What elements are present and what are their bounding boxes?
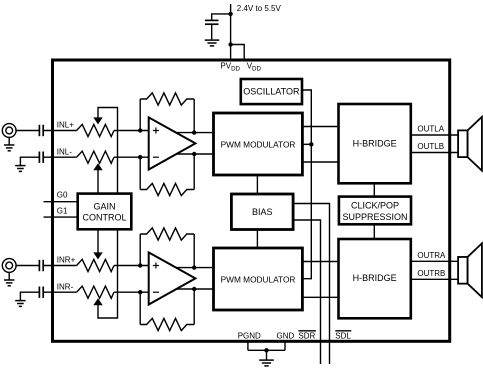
junction dot INR+ fb tap — [138, 263, 142, 267]
junction dot out+ fb tap 1 — [192, 130, 196, 134]
wire oscillator distribution — [302, 90, 311, 279]
wire INR+ to amp — [114, 265, 150, 267]
wire feedback left vert INR top — [139, 234, 141, 266]
svg-text:G1: G1 — [57, 207, 68, 216]
ground INR- reference — [15, 301, 25, 307]
PWM MODULATOR 1 block — [214, 113, 303, 175]
wire PWM2 outB — [302, 296, 338, 298]
resistor Rf_INL top (feedback) — [140, 93, 194, 105]
svg-text:VDD: VDD — [247, 62, 262, 73]
svg-text:INL-: INL- — [57, 148, 72, 157]
wire PVDD supply drop — [230, 4, 232, 60]
input jack connector J_INL — [2, 124, 16, 138]
wire feedback right vert INR bottom — [193, 289, 195, 325]
resistor R_INR+ (variable) — [77, 259, 114, 271]
svg-text:PWM MODULATOR: PWM MODULATOR — [221, 139, 296, 149]
svg-text:H-BRIDGE: H-BRIDGE — [353, 139, 397, 149]
wire INL- tap line — [97, 170, 99, 194]
wire amp out- to PWM 2 — [170, 288, 214, 290]
wire OUTLA — [411, 134, 458, 136]
wire BIAS to SDL pin — [293, 204, 329, 365]
capacitor C_INL+ — [39, 125, 43, 136]
wire PGND stub — [247, 341, 249, 350]
svg-text:OUTLA: OUTLA — [417, 125, 444, 134]
svg-text:PWM MODULATOR: PWM MODULATOR — [221, 274, 296, 284]
PWM MODULATOR 2 block — [214, 248, 303, 310]
wire feedback left vert INR bottom — [139, 292, 141, 324]
junction dot osc/PWM1 — [309, 142, 313, 146]
svg-text:PVDD: PVDD — [220, 62, 240, 73]
capacitor bypass (supply) — [205, 20, 219, 24]
ground system — [259, 360, 274, 366]
wire PWM1 to BIAS — [256, 175, 258, 194]
svg-text:INL+: INL+ — [57, 120, 74, 129]
speaker left — [458, 117, 482, 171]
wire INL+ jack to cap — [15, 130, 38, 132]
ground under jack INL — [4, 145, 14, 151]
wire INR- ground to cap — [20, 292, 38, 300]
wire INR+ into box — [44, 265, 77, 267]
wire G0 stub — [44, 201, 78, 203]
GAIN CONTROL block — [78, 194, 132, 230]
wire jack INL ground stub — [8, 137, 10, 145]
wire HB1 to click/pop — [373, 183, 375, 196]
svg-text:OUTRA: OUTRA — [417, 251, 446, 260]
svg-text:CONTROL: CONTROL — [82, 212, 126, 222]
wire PWM1 outB — [302, 161, 338, 163]
wire feedback left vert INL top — [139, 99, 141, 131]
wire jack INR ground stub — [8, 272, 10, 280]
svg-text:INR+: INR+ — [57, 255, 76, 264]
junction dot INR- fb tap — [138, 290, 142, 294]
wire OUTRB — [411, 278, 458, 280]
svg-text:CLICK/POP: CLICK/POP — [351, 200, 399, 210]
wire INL- to amp — [114, 156, 150, 158]
H-BRIDGE 2 block — [339, 239, 411, 318]
wire amp out+ to PWM 2 — [170, 267, 214, 269]
wire OUTRA — [411, 260, 458, 262]
junction dot INL- fb tap — [138, 155, 142, 159]
wire BIAS to SDR pin — [293, 220, 320, 364]
svg-text:OUTRB: OUTRB — [417, 269, 445, 278]
wire feedback right vert INL top — [193, 99, 195, 133]
wire PWM2 outA — [302, 261, 338, 263]
wire feedback right vert INL bottom — [193, 154, 195, 190]
svg-text:GND: GND — [277, 331, 295, 340]
junction dot out+ fb tap 2 — [192, 265, 196, 269]
arrow (gain control tap) into R_INR- — [93, 298, 102, 305]
resistor R_INL- (variable) — [77, 151, 114, 163]
wire feedback right vert INR top — [193, 234, 195, 268]
wire tie to ground — [266, 350, 268, 360]
wire GND stub — [284, 341, 286, 350]
svg-text:OSCILLATOR: OSCILLATOR — [243, 87, 300, 97]
junction dot ground tie — [264, 348, 268, 352]
svg-text:GAIN: GAIN — [93, 201, 115, 211]
OSCILLATOR block — [241, 79, 302, 104]
wire INR- to amp — [114, 291, 150, 293]
wire VDD branch — [231, 45, 245, 61]
svg-text:SDL: SDL — [335, 331, 351, 340]
wire INR- into box — [44, 291, 77, 293]
wire PWM1 outA — [302, 126, 338, 128]
speaker right — [458, 243, 482, 297]
svg-text:H-BRIDGE: H-BRIDGE — [353, 273, 397, 283]
wire amp out+ to PWM 1 — [170, 132, 214, 134]
junction dot out- fb tap 2 — [192, 287, 196, 291]
op-amp U2 — [149, 252, 196, 304]
svg-text:INR-: INR- — [57, 283, 74, 292]
svg-text:OUTLB: OUTLB — [417, 142, 444, 151]
capacitor C_INR+ — [39, 260, 43, 271]
wire INL+ tap loop — [98, 108, 118, 194]
junction dot INL+ fb tap — [138, 128, 142, 132]
arrow (gain control tap) into R_INL+ — [93, 117, 102, 124]
svg-text:PGND: PGND — [238, 331, 261, 340]
wire INR+ tap line — [97, 229, 99, 253]
wire BIAS to PWM2 — [256, 230, 258, 249]
H-BRIDGE 1 block — [339, 104, 411, 183]
wire click/pop to HB2 — [373, 224, 375, 239]
wire PGND-GND tie — [248, 349, 285, 351]
ground INL- reference — [15, 166, 25, 172]
wire branch to bypass cap — [212, 14, 231, 20]
wire INL+ into box — [44, 130, 77, 132]
svg-text:G0: G0 — [57, 191, 68, 200]
CLICK/POP SUPPRESSION block — [339, 197, 411, 225]
junction dot supply split — [228, 42, 232, 46]
wire INR+ jack to cap — [15, 265, 38, 267]
arrow (gain control tap) into R_INL- — [93, 163, 102, 170]
svg-text:SUPPRESSION: SUPPRESSION — [342, 212, 407, 222]
wire cap to ground — [211, 25, 213, 39]
wire amp out- to PWM 1 — [170, 153, 214, 155]
junction dot supply top — [228, 12, 232, 16]
resistor Rf_INR top (feedback) — [140, 228, 194, 240]
wire osc feed to PWM1 — [302, 143, 311, 145]
wire OUTLB — [411, 152, 458, 154]
wire feedback left vert INL bottom — [139, 157, 141, 189]
BIAS block — [231, 194, 293, 230]
svg-text:SDR: SDR — [298, 331, 315, 340]
input jack connector J_INR — [2, 259, 16, 273]
wire INL- ground to cap — [20, 157, 38, 165]
ground supply bypass — [205, 40, 220, 46]
svg-text:BIAS: BIAS — [252, 207, 273, 217]
wire INR- tap loop — [98, 229, 118, 318]
wire INL- into box — [44, 156, 77, 158]
capacitor C_INL- — [39, 152, 43, 163]
IC outline (main box) — [53, 60, 450, 341]
resistor Rf_INR bottom (feedback) — [140, 318, 194, 330]
ground under jack INR — [4, 280, 14, 286]
wire G1 stub — [44, 216, 78, 218]
wire INL+ to amp — [114, 130, 150, 132]
capacitor C_INR- — [39, 287, 43, 298]
svg-text:2.4V to 5.5V: 2.4V to 5.5V — [237, 4, 282, 13]
junction dot out- fb tap 1 — [192, 152, 196, 156]
op-amp U1 — [149, 117, 196, 169]
resistor R_INL+ (variable) — [77, 124, 114, 136]
resistor Rf_INL bottom (feedback) — [140, 183, 194, 195]
arrow (gain control tap) into R_INR+ — [93, 252, 102, 259]
resistor R_INR- (variable) — [77, 286, 114, 298]
